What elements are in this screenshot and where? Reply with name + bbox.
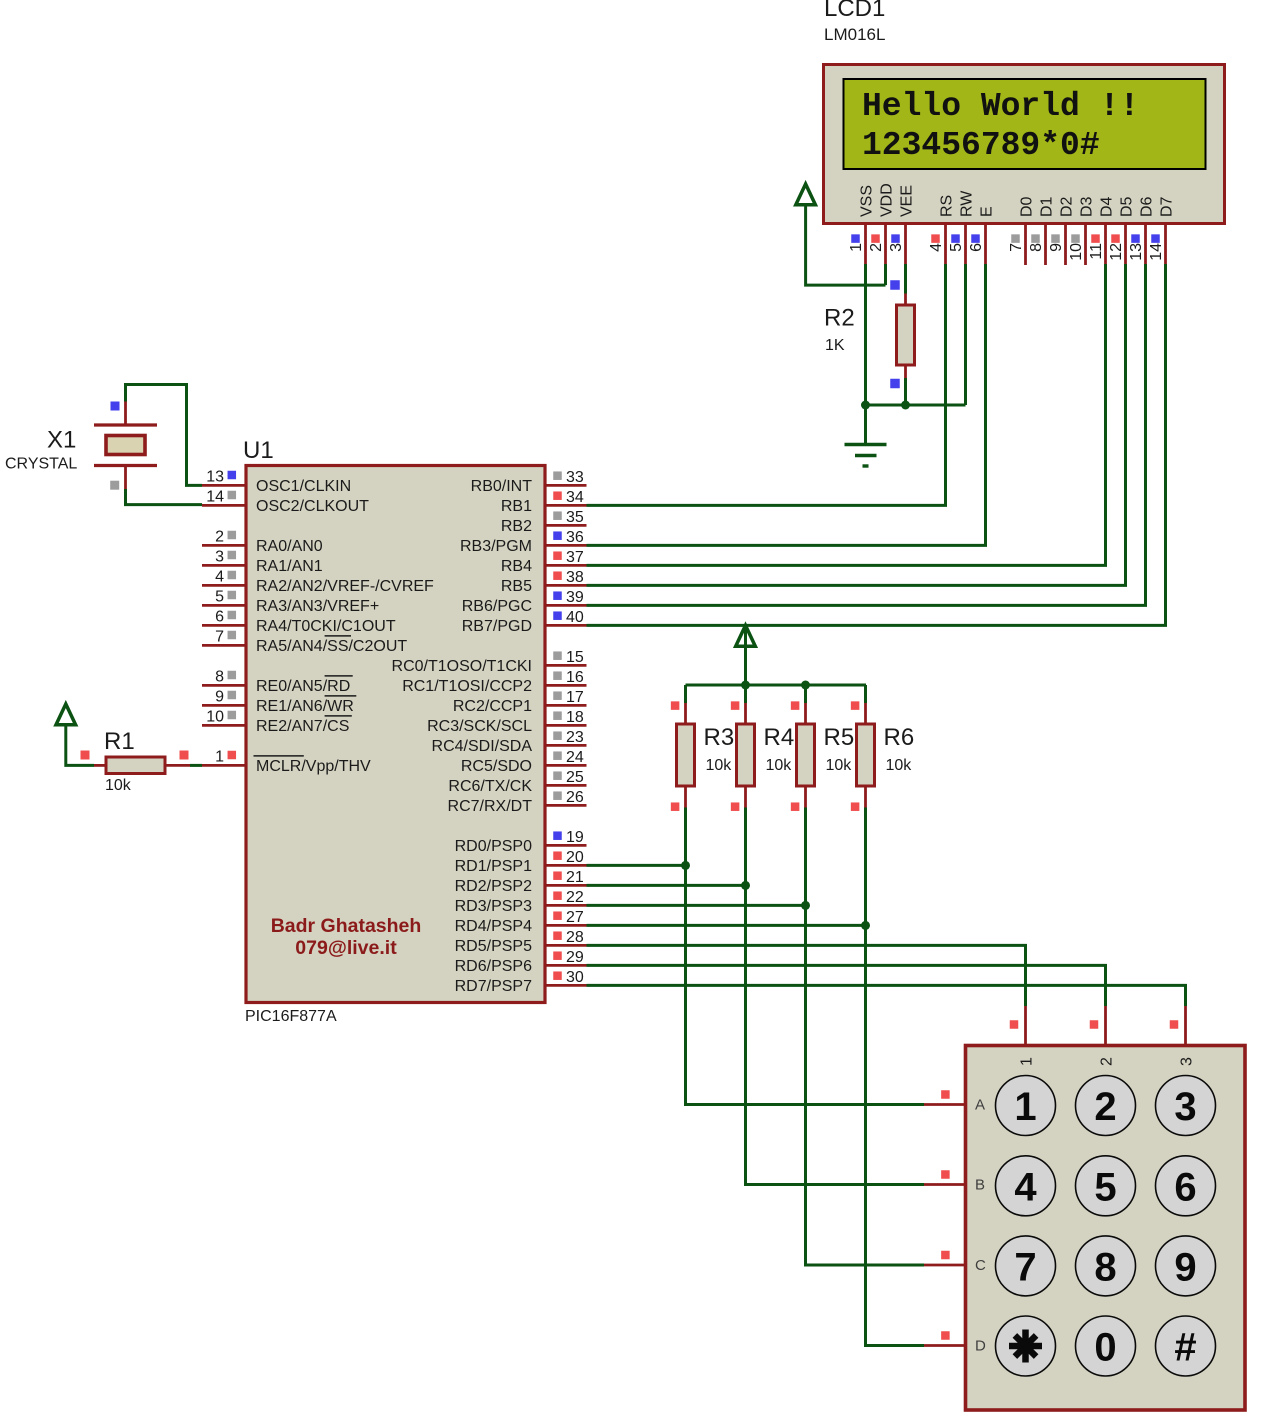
svg-text:16: 16 (566, 669, 584, 686)
R1 right pin state square (180, 751, 189, 760)
resistor R3 body (677, 724, 695, 786)
svg-text:30: 30 (566, 969, 584, 986)
keypad button 9 (1156, 1236, 1216, 1296)
svg-text:RE2/AN7/CS: RE2/AN7/CS (256, 718, 349, 735)
LCD pin name VEE (899, 185, 916, 217)
U1 pin name RB5 (501, 578, 532, 595)
svg-text:18: 18 (566, 709, 584, 726)
svg-text:RB4: RB4 (501, 558, 532, 575)
U1 pin 23 (RC4) stub (545, 744, 587, 747)
U1 pin number 34 (566, 489, 584, 506)
keypad button star (996, 1316, 1056, 1376)
keypad column label 2 (1099, 1057, 1116, 1066)
svg-text:RS: RS (939, 195, 956, 217)
svg-text:R3: R3 (704, 724, 735, 751)
svg-text:9: 9 (1048, 243, 1065, 252)
svg-text:D1: D1 (1039, 196, 1056, 217)
wire RD1/PSP1 to row A net (587, 864, 686, 867)
R5 bottom pin state square (791, 802, 800, 811)
svg-text:R5: R5 (824, 724, 855, 751)
svg-text:35: 35 (566, 509, 584, 526)
U1 pin 18 state square (553, 711, 562, 720)
LCD pin name VSS (859, 185, 876, 217)
overline for pin 10 (325, 715, 352, 717)
resistor R3 bottom pin (684, 786, 687, 808)
svg-text:39: 39 (566, 589, 584, 606)
keypad body (966, 1046, 1246, 1411)
U1 pin 28 state square (553, 931, 562, 940)
svg-text:5: 5 (1094, 1165, 1116, 1209)
U1 pin 29 state square (553, 951, 562, 960)
U1 pin 4 state square (228, 571, 237, 580)
svg-text:9: 9 (1174, 1245, 1196, 1289)
LCD pin 11 state square (1091, 234, 1100, 243)
resistor R5 bottom pin (804, 786, 807, 808)
wire LCD RW (pin5) down to ground bus (964, 264, 967, 405)
svg-text:OSC2/CLKOUT: OSC2/CLKOUT (256, 498, 369, 515)
U1 pin name RA4/T0CKI/C1OUT (256, 618, 396, 635)
wire LCD VEE (pin3) to R2 top (904, 264, 907, 294)
svg-text:RA2/AN2/VREF-/CVREF: RA2/AN2/VREF-/CVREF (256, 578, 434, 595)
keypad column 3 state square (1170, 1020, 1179, 1029)
svg-text:R4: R4 (764, 724, 795, 751)
LCD pin number 9 (1048, 243, 1065, 252)
label R5 designator (824, 724, 855, 751)
U1 pin name RB2 (501, 518, 532, 535)
svg-text:RC5/SDO: RC5/SDO (461, 758, 532, 775)
LCD pin 10 state square (1071, 234, 1080, 243)
U1 pin number 25 (566, 769, 584, 786)
microcontroller U1 PIC16F877A body (246, 466, 545, 1003)
U1 pin name RC0/T1OSO/T1CKI (392, 658, 532, 675)
keypad button 3 (1156, 1076, 1216, 1136)
LCD pin 7 state square (1011, 234, 1020, 243)
label R5 value 10k (826, 757, 853, 774)
LCD pin 14 (D7) stub (1164, 225, 1167, 266)
U1 pin 34 state square (553, 491, 562, 500)
R3 top pin state square (671, 701, 680, 710)
U1 pin 24 state square (553, 751, 562, 760)
U1 pin 19 (RD0) stub (545, 844, 587, 847)
svg-text:RA0/AN0: RA0/AN0 (256, 538, 323, 555)
svg-text:D4: D4 (1099, 196, 1116, 217)
svg-text:OSC1/CLKIN: OSC1/CLKIN (256, 478, 351, 495)
U1 pin 8 state square (228, 671, 237, 680)
wire R1 to MCLR pin (190, 764, 202, 767)
keypad column 2 pin stub (1104, 1006, 1107, 1046)
LCD pin 6 (E) stub (984, 225, 987, 266)
LCD pin number 2 (868, 243, 885, 252)
svg-text:4: 4 (928, 243, 945, 252)
crystal X1 top pin (124, 402, 127, 426)
U1 pin number 33 (566, 469, 584, 486)
U1 pin 25 (RC6) stub (545, 784, 587, 787)
U1 pin 30 (RD7) stub (545, 984, 587, 987)
svg-text:7: 7 (1008, 243, 1025, 252)
overline for pin 8 (325, 675, 353, 677)
crystal X1 bottom pin (124, 466, 127, 490)
svg-text:2: 2 (1094, 1085, 1116, 1129)
U1 pin number 39 (566, 589, 584, 606)
wire RD7/PSP7 to keypad column 3 (587, 985, 1186, 1006)
svg-text:27: 27 (566, 909, 584, 926)
U1 pin name RC1/T1OSI/CCP2 (402, 678, 532, 695)
U1 pin 30 state square (553, 971, 562, 980)
svg-text:CRYSTAL: CRYSTAL (5, 456, 77, 473)
LCD pin 3 state square (891, 234, 900, 243)
U1 pin 5 state square (228, 591, 237, 600)
U1 pin number 35 (566, 509, 584, 526)
U1 pin 10 state square (228, 711, 237, 720)
svg-text:R6: R6 (884, 724, 915, 751)
resistor R1 body (106, 757, 165, 774)
LCD pin 5 state square (951, 234, 960, 243)
keypad button 7 (996, 1236, 1056, 1296)
svg-text:6: 6 (215, 608, 224, 625)
LCD screen text line 1 (862, 88, 1139, 125)
U1 pin name RA0/AN0 (256, 538, 323, 555)
LCD pin number 13 (1128, 243, 1145, 261)
resistor R6 top pin (864, 703, 867, 724)
R6 bottom pin state square (851, 802, 860, 811)
U1 pin 16 state square (553, 671, 562, 680)
U1 pin 15 state square (553, 651, 562, 660)
LCD pin number 8 (1028, 243, 1045, 252)
U1 pin 35 state square (553, 511, 562, 520)
svg-text:RC7/RX/DT: RC7/RX/DT (448, 798, 533, 815)
LCD pin 13 (D6) stub (1144, 225, 1147, 266)
svg-text:RB7/PGD: RB7/PGD (462, 618, 532, 635)
U1 pin 29 (RD6) stub (545, 964, 587, 967)
svg-text:0: 0 (1094, 1326, 1116, 1370)
svg-text:D: D (975, 1338, 986, 1355)
label R4 designator (764, 724, 795, 751)
svg-text:U1: U1 (243, 437, 274, 464)
U1 pin 21 (RD2) stub (545, 884, 587, 887)
svg-text:A: A (975, 1097, 985, 1114)
svg-text:5: 5 (215, 588, 224, 605)
svg-text:RA3/AN3/VREF+: RA3/AN3/VREF+ (256, 598, 379, 615)
resistor R4 bottom pin (744, 786, 747, 808)
U1 pin name RE0/AN5/RD (256, 678, 350, 695)
svg-text:Hello World !!: Hello World !! (862, 88, 1139, 125)
svg-text:3: 3 (1174, 1085, 1196, 1129)
U1 pin 1 (MCLR) stub (202, 764, 246, 767)
wire R2 bottom to ground bus (904, 378, 907, 405)
wire bus to R3 top (684, 685, 687, 703)
U1 pin 21 state square (553, 871, 562, 880)
keypad column 2 state square (1090, 1020, 1099, 1029)
resistor R2 bottom pin (904, 365, 907, 378)
R4 bottom pin state square (731, 802, 740, 811)
LCD pin name RS (939, 195, 956, 217)
LCD pin 9 state square (1051, 234, 1060, 243)
svg-text:LCD1: LCD1 (824, 0, 885, 22)
resistor R6 bottom pin (864, 786, 867, 808)
U1 pin name RD5/PSP5 (455, 938, 532, 955)
LCD pin number 3 (888, 243, 905, 252)
U1 pin number 40 (566, 609, 584, 626)
U1 pin name MCLR/Vpp/THV (256, 758, 371, 775)
svg-text:8: 8 (215, 668, 224, 685)
U1 pin name RD1/PSP1 (455, 858, 532, 875)
R5 top pin state square (791, 701, 800, 710)
resistor R5 top pin (804, 703, 807, 724)
svg-text:B: B (975, 1177, 985, 1194)
X1 top pin state square (111, 402, 120, 411)
LCD pin 1 state square (851, 234, 860, 243)
label R1 designator (104, 728, 135, 755)
label X1 designator (47, 427, 76, 454)
label R6 designator (884, 724, 915, 751)
svg-text:10k: 10k (886, 757, 913, 774)
U1 pin name OSC1/CLKIN (256, 478, 351, 495)
keypad column 1 pin stub (1024, 1006, 1027, 1046)
LCD pin name D0 (1019, 196, 1036, 217)
LCD pin 8 state square (1031, 234, 1040, 243)
svg-text:RD6/PSP6: RD6/PSP6 (455, 958, 532, 975)
U1 pin 13 state square (228, 471, 237, 480)
LCD pin 7 (D0) stub (1024, 225, 1027, 266)
svg-text:1: 1 (848, 243, 865, 252)
U1 pin number 28 (566, 929, 584, 946)
wire R5 bottom to keypad row (806, 808, 925, 1266)
wire bus to R6 top (864, 685, 867, 703)
svg-text:8: 8 (1028, 243, 1045, 252)
R1 left pin state square (81, 751, 90, 760)
resistor R1 left pin (94, 764, 106, 767)
svg-text:14: 14 (1148, 243, 1165, 261)
svg-text:9: 9 (215, 688, 224, 705)
wire RD5/PSP5 to keypad column 1 (587, 945, 1026, 1006)
U1 pin name RC2/CCP1 (453, 698, 532, 715)
wire X1 top to OSC1/CLKIN (126, 385, 203, 486)
U1 pin name RD0/PSP0 (455, 838, 532, 855)
U1 pin 8 (RE0) stub (202, 684, 246, 687)
svg-text:R2: R2 (824, 305, 855, 332)
U1 pin 6 (RA4) stub (202, 624, 246, 627)
U1 pin name RA3/AN3/VREF+ (256, 598, 379, 615)
LCD pin name D4 (1099, 196, 1116, 217)
U1 pin number 7 (215, 628, 224, 645)
keypad button 1 (996, 1076, 1056, 1136)
keypad button 4 (996, 1156, 1056, 1216)
keypad column label 3 (1179, 1057, 1196, 1066)
wire VCC to R1 left (66, 726, 94, 766)
U1 pin name RA1/AN1 (256, 558, 323, 575)
R4 top pin state square (731, 701, 740, 710)
svg-text:E: E (979, 206, 996, 217)
U1 pin 17 (RC2) stub (545, 704, 587, 707)
LCD pin name RW (959, 190, 976, 217)
label R1 value 10k (105, 777, 132, 794)
U1 pin 27 (RD4) stub (545, 924, 587, 927)
svg-text:12: 12 (1108, 243, 1125, 261)
svg-text:RD0/PSP0: RD0/PSP0 (455, 838, 532, 855)
svg-text:D0: D0 (1019, 196, 1036, 217)
junction R4 top/VCC (741, 681, 750, 690)
LCD pin 1 (VSS) stub (864, 225, 867, 266)
R3 bottom pin state square (671, 802, 680, 811)
wire RB1 to LCD RS (587, 264, 946, 505)
resistor R2 top pin (904, 294, 907, 306)
wire X1 bottom to OSC2/CLKOUT (126, 489, 203, 505)
U1 pin 24 (RC5) stub (545, 764, 587, 767)
U1 pin 34 (RB1) stub (545, 504, 587, 507)
svg-text:D7: D7 (1159, 196, 1176, 217)
U1 pin name RD4/PSP4 (455, 918, 532, 935)
svg-text:36: 36 (566, 529, 584, 546)
svg-text:VEE: VEE (899, 185, 916, 217)
label U1 value PIC16F877A (245, 1008, 337, 1025)
svg-text:28: 28 (566, 929, 584, 946)
LCD pin name D3 (1079, 196, 1096, 217)
LCD pin name D1 (1039, 196, 1056, 217)
U1 pin number 14 (206, 488, 224, 505)
svg-text:079@live.it: 079@live.it (295, 937, 397, 959)
LCD pin name D6 (1139, 196, 1156, 217)
LCD pin number 4 (928, 243, 945, 252)
svg-text:7: 7 (1014, 1245, 1036, 1289)
X1 bottom pin state square (110, 481, 119, 490)
svg-text:6: 6 (968, 243, 985, 252)
label LCD1 designator (824, 0, 885, 22)
wire RB3/PGM to LCD E (587, 264, 986, 545)
svg-text:34: 34 (566, 489, 584, 506)
wire RD2/PSP2 to row B net (587, 884, 746, 887)
overline for pin 1 (254, 755, 304, 757)
svg-text:VSS: VSS (859, 185, 876, 217)
svg-text:RC3/SCK/SCL: RC3/SCK/SCL (427, 718, 532, 735)
LCD pin 11 (D4) stub (1104, 225, 1107, 266)
resistor R1 right pin (165, 764, 190, 767)
svg-text:RD2/PSP2: RD2/PSP2 (455, 878, 532, 895)
U1 pin number 23 (566, 729, 584, 746)
LCD pin number 12 (1108, 243, 1125, 261)
LCD screen text line 2 (862, 127, 1100, 164)
U1 pin 40 state square (553, 611, 562, 620)
svg-text:33: 33 (566, 469, 584, 486)
keypad row label A (975, 1097, 985, 1114)
ground symbol (845, 405, 887, 466)
U1 pin name RC6/TX/CK (448, 778, 532, 795)
svg-text:15: 15 (566, 649, 584, 666)
svg-text:RC4/SDI/SDA: RC4/SDI/SDA (432, 738, 533, 755)
keypad column 1 state square (1010, 1020, 1019, 1029)
svg-text:22: 22 (566, 889, 584, 906)
svg-text:RB2: RB2 (501, 518, 532, 535)
svg-text:#: # (1174, 1326, 1196, 1370)
svg-text:RD4/PSP4: RD4/PSP4 (455, 918, 532, 935)
U1 pin name RC5/SDO (461, 758, 532, 775)
LCD pin 2 (VDD) stub (884, 225, 887, 266)
U1 pin 7 state square (228, 631, 237, 640)
U1 pin 2 (RA0) stub (202, 544, 246, 547)
keypad row label C (975, 1257, 986, 1274)
keypad row A pin stub (924, 1103, 966, 1106)
U1 pin name OSC2/CLKOUT (256, 498, 369, 515)
svg-text:RC2/CCP1: RC2/CCP1 (453, 698, 532, 715)
svg-text:24: 24 (566, 749, 584, 766)
label R2 designator (824, 305, 855, 332)
wire VCC to resistor bus (744, 647, 747, 685)
svg-text:RB0/INT: RB0/INT (471, 478, 533, 495)
U1 pin 9 state square (228, 691, 237, 700)
svg-text:20: 20 (566, 849, 584, 866)
svg-text:3: 3 (888, 243, 905, 252)
wire LCD pin2 drop (884, 264, 887, 285)
U1 pin number 29 (566, 949, 584, 966)
svg-text:10: 10 (1068, 243, 1085, 261)
svg-text:10k: 10k (105, 777, 132, 794)
U1 pin name RB1 (501, 498, 532, 515)
U1 pin 10 (RE2) stub (202, 724, 246, 727)
U1 pin 38 (RB5) stub (545, 584, 587, 587)
U1 pin 14 state square (228, 491, 237, 500)
svg-text:RC6/TX/CK: RC6/TX/CK (448, 778, 532, 795)
keypad row B pin stub (924, 1183, 966, 1186)
LCD pin 10 (D3) stub (1084, 225, 1087, 266)
LCD pin 4 state square (931, 234, 940, 243)
svg-text:RD5/PSP5: RD5/PSP5 (455, 938, 532, 955)
U1 pin 40 (RB7) stub (545, 624, 587, 627)
wire resistor top bus (686, 684, 867, 687)
U1 pin name RC7/RX/DT (448, 798, 533, 815)
svg-text:7: 7 (215, 628, 224, 645)
svg-text:26: 26 (566, 789, 584, 806)
svg-text:23: 23 (566, 729, 584, 746)
U1 pin 19 state square (553, 831, 562, 840)
U1 pin name RA5/AN4/SS/C2OUT (256, 638, 407, 655)
keypad row D pin stub (924, 1344, 966, 1347)
svg-text:RD1/PSP1: RD1/PSP1 (455, 858, 532, 875)
U1 pin 36 (RB3) stub (545, 544, 587, 547)
U1 pin 23 state square (553, 731, 562, 740)
svg-text:14: 14 (206, 488, 224, 505)
U1 pin 9 (RE1) stub (202, 704, 246, 707)
U1 pin number 16 (566, 669, 584, 686)
LCD pin 4 (RS) stub (944, 225, 947, 266)
power symbol VCC (MCLR pull-up) (56, 704, 76, 725)
svg-text:PIC16F877A: PIC16F877A (245, 1008, 337, 1025)
junction R5 net / PIC RD pin (801, 901, 810, 910)
label R2 value 1K (825, 337, 845, 354)
wire R6 bottom to keypad row (866, 808, 925, 1346)
wire RB6/PGC to LCD D6 (587, 264, 1146, 605)
U1 pin 39 state square (553, 591, 562, 600)
U1 pin 25 state square (553, 771, 562, 780)
U1 pin 3 state square (228, 551, 237, 560)
U1 pin 7 (RA5) stub (202, 644, 246, 647)
keypad column 3 pin stub (1184, 1006, 1187, 1046)
U1 pin number 19 (566, 829, 584, 846)
U1 pin 33 state square (553, 471, 562, 480)
U1 pin 4 (RA2) stub (202, 584, 246, 587)
U1 pin 39 (RB6) stub (545, 604, 587, 607)
svg-text:RC1/T1OSI/CCP2: RC1/T1OSI/CCP2 (402, 678, 532, 695)
U1 pin number 8 (215, 668, 224, 685)
resistor R4 body (737, 724, 755, 786)
U1 pin 15 (RC0) stub (545, 664, 587, 667)
U1 pin 28 (RD5) stub (545, 944, 587, 947)
svg-text:37: 37 (566, 549, 584, 566)
LCD pin 14 state square (1151, 234, 1160, 243)
keypad row A state square (941, 1090, 950, 1099)
overline for pin 9 (325, 695, 357, 697)
U1 pin 22 state square (553, 891, 562, 900)
svg-text:2: 2 (1099, 1057, 1116, 1066)
svg-text:3: 3 (215, 548, 224, 565)
